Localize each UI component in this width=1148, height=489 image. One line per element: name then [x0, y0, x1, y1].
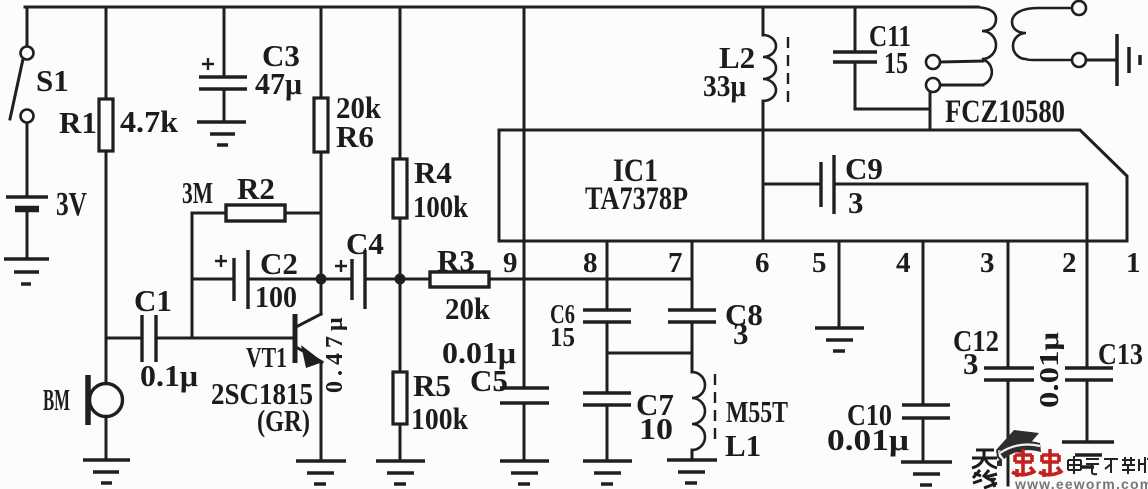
capacitor C11 15p — [833, 7, 930, 109]
ground (antenna side, rotated) — [1117, 34, 1140, 86]
resistor R3 20k — [400, 243, 692, 326]
microphone BM — [43, 375, 123, 459]
svg-text:www.eeworm.com: www.eeworm.com — [1014, 476, 1148, 489]
inductor L1 M55T — [692, 372, 788, 463]
svg-text:0.47μ: 0.47μ — [322, 312, 348, 393]
svg-text:3: 3 — [733, 316, 749, 351]
svg-text:3: 3 — [848, 185, 864, 220]
ground (R5) — [376, 461, 425, 484]
svg-text:R4: R4 — [414, 155, 452, 190]
pin 3 branch: C12 3p + antenna — [953, 241, 1034, 485]
svg-text:2: 2 — [1062, 247, 1077, 279]
svg-text:4.7k: 4.7k — [120, 104, 179, 139]
svg-text:0.01μ: 0.01μ — [827, 422, 909, 457]
svg-text:R6: R6 — [336, 119, 374, 154]
resistor R5 100k — [393, 279, 469, 459]
svg-text:C9: C9 — [845, 151, 883, 186]
ground (C7) — [583, 461, 632, 484]
svg-text:TA7378P: TA7378P — [585, 181, 688, 217]
svg-text:3V: 3V — [56, 186, 87, 223]
ground (microphone) — [83, 460, 130, 483]
svg-text:15: 15 — [884, 45, 908, 80]
svg-text:1: 1 — [1126, 247, 1141, 279]
svg-text:100k: 100k — [413, 189, 469, 224]
resistor R6 20k — [314, 7, 382, 279]
svg-text:5: 5 — [812, 247, 827, 279]
svg-text:3: 3 — [980, 247, 995, 279]
wire: R3 to pin 7 — [489, 278, 692, 281]
svg-text:S1: S1 — [36, 63, 69, 98]
svg-text:47μ: 47μ — [255, 66, 302, 101]
svg-text:0.01μ: 0.01μ — [1034, 332, 1064, 408]
svg-text:VT1: VT1 — [246, 342, 287, 374]
pin 7 branch: C8 3p — [668, 241, 763, 372]
svg-text:C5: C5 — [470, 363, 508, 398]
svg-text:R1: R1 — [59, 105, 97, 140]
svg-text:L1: L1 — [725, 428, 761, 463]
svg-text:9: 9 — [503, 247, 518, 279]
svg-text:3M: 3M — [182, 175, 213, 210]
svg-text:6: 6 — [755, 247, 770, 279]
pin 8 branch: C6 15p — [550, 241, 631, 393]
svg-text:100: 100 — [255, 279, 297, 314]
svg-text:8: 8 — [583, 247, 598, 279]
op IC1 TA7378P body — [499, 130, 1127, 241]
svg-text:R3: R3 — [437, 243, 475, 278]
ground (VT1 emitter) — [296, 461, 346, 484]
node: collector junction — [316, 274, 327, 285]
top supply rail — [25, 6, 978, 9]
svg-text:(GR): (GR) — [257, 403, 310, 438]
ground (C13) — [1062, 442, 1114, 467]
transformer FCZ10580 secondary — [1012, 1, 1116, 67]
pin 2 branch: C13 0.01u — [1034, 241, 1143, 440]
resistor R4 100k — [393, 7, 469, 279]
svg-text:3: 3 — [963, 346, 979, 381]
wire: R2 feedback to base — [191, 213, 194, 338]
svg-text:10: 10 — [639, 411, 673, 446]
svg-text:R5: R5 — [413, 368, 451, 403]
svg-text:BM: BM — [43, 382, 70, 417]
wire: C1 to VT1 base — [156, 337, 293, 340]
switch S1 — [10, 7, 69, 194]
wire: Vcc / pin 9 line — [523, 7, 526, 388]
capacitor C3 47u — [199, 7, 302, 121]
node: C4/R4/R3/R5 junction — [395, 274, 406, 285]
ground (C3) — [197, 122, 246, 145]
capacitor C2 100u — [192, 246, 321, 314]
inductor L2 33u — [703, 7, 788, 241]
svg-text:C13: C13 — [1098, 336, 1143, 371]
capacitor C5 0.01u — [442, 335, 549, 459]
svg-text:7: 7 — [668, 247, 683, 279]
ground (battery) — [4, 259, 49, 284]
capacitor C1 0.1u — [106, 283, 293, 393]
resistor R2 3M — [182, 171, 321, 338]
battery 3V — [6, 186, 87, 258]
capacitor C4 0.47u — [321, 226, 400, 393]
antenna label (Chinese) — [972, 450, 997, 488]
pin 5 to ground — [815, 241, 864, 351]
watermark red bug characters — [1012, 449, 1062, 477]
svg-text:0.1μ: 0.1μ — [140, 358, 198, 393]
wire: C6/C7 to C8/L1 junction — [607, 352, 692, 355]
svg-text:4: 4 — [896, 247, 911, 279]
svg-text:20k: 20k — [445, 291, 491, 326]
watermark site name characters — [1068, 456, 1148, 474]
svg-text:C2: C2 — [260, 246, 298, 281]
svg-text:FCZ10580: FCZ10580 — [945, 94, 1065, 130]
svg-text:15: 15 — [550, 322, 575, 352]
capacitor C9 3p — [763, 151, 1087, 241]
svg-text:R2: R2 — [237, 171, 275, 206]
ground (C5) — [500, 461, 549, 484]
ground (C10) — [901, 462, 952, 485]
svg-text:C4: C4 — [346, 226, 384, 261]
transformer FCZ10580 primary — [926, 7, 1065, 130]
svg-text:33μ: 33μ — [703, 68, 746, 103]
svg-text:100k: 100k — [411, 401, 469, 436]
resistor R1 4.7k — [59, 7, 179, 383]
pin 4 branch: C10 0.01u — [827, 241, 950, 460]
svg-text:M55T: M55T — [726, 394, 788, 429]
pin numbers — [503, 247, 1141, 279]
ground (L1) — [667, 460, 717, 483]
watermark logo (graduation hat) — [996, 430, 1041, 466]
svg-text:C1: C1 — [134, 283, 172, 318]
transistor VT1 2SC1815 — [211, 279, 323, 459]
capacitor C7 10p — [583, 387, 674, 459]
